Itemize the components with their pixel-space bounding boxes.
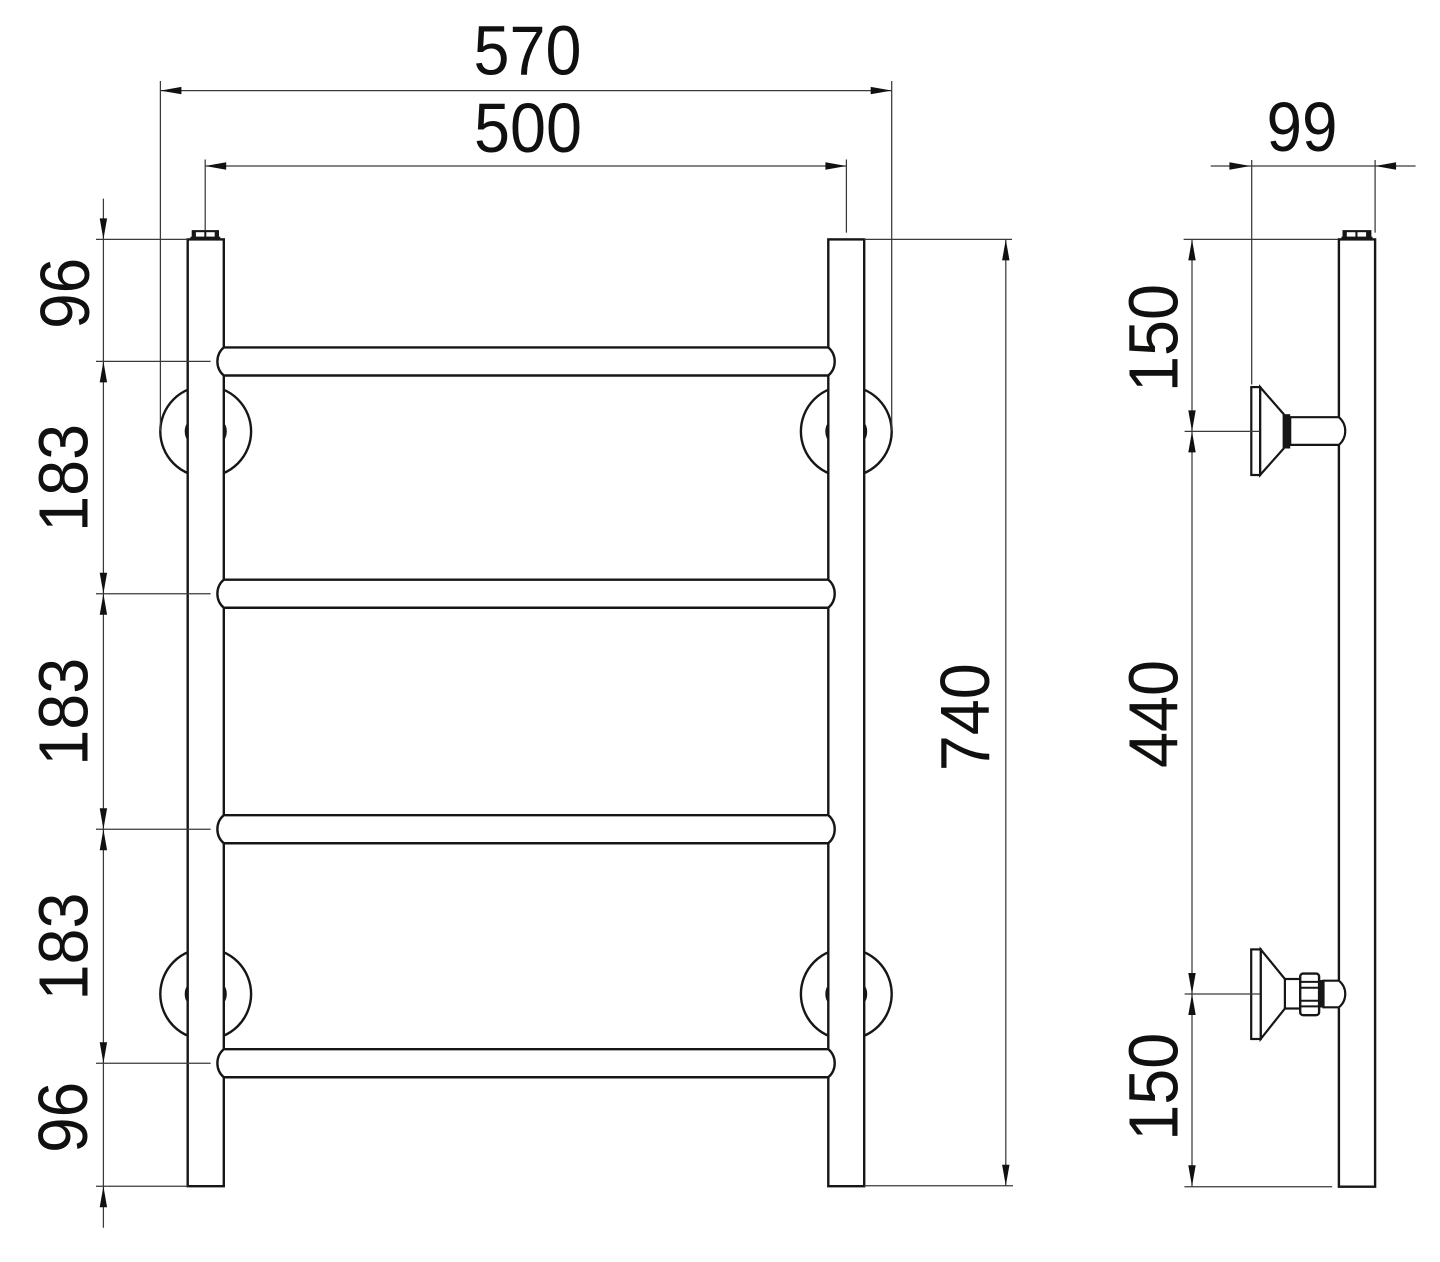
svg-text:96: 96: [26, 258, 104, 329]
svg-text:570: 570: [474, 12, 582, 90]
svg-text:500: 500: [474, 89, 582, 167]
svg-text:440: 440: [1115, 660, 1193, 768]
svg-text:740: 740: [926, 663, 1004, 771]
svg-text:150: 150: [1115, 1033, 1193, 1141]
svg-text:150: 150: [1115, 284, 1193, 392]
svg-text:183: 183: [25, 424, 103, 532]
svg-text:183: 183: [25, 658, 103, 766]
svg-text:96: 96: [24, 1082, 102, 1153]
svg-text:183: 183: [25, 893, 103, 1001]
svg-text:99: 99: [1267, 88, 1338, 166]
